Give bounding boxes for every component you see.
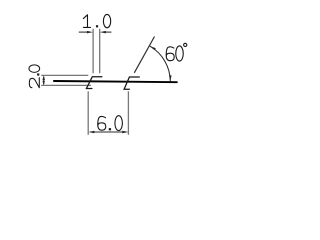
- extension line right of gap: [99, 29, 101, 73]
- label 2.0 (rotated): [29, 65, 40, 88]
- 1.0 dimension lines and arrows: [79, 31, 88, 33]
- break symbol 1: [86, 77, 102, 89]
- left plate bottom edge: [41, 84, 91, 86]
- angular dimension arc: [150, 46, 171, 82]
- break symbol 2: [124, 77, 139, 89]
- label 6.0: [98, 116, 123, 131]
- 6.0 right extension line: [127, 91, 129, 135]
- extension line left of gap: [92, 29, 94, 73]
- arc arrow at line: [169, 75, 172, 81]
- label 60 deg: [166, 43, 187, 61]
- 2.0 dimension line and arrows: [43, 77, 45, 85]
- arc arrow at slant: [150, 46, 156, 50]
- main horizontal line: [53, 81, 177, 82]
- label 1.0: [83, 14, 110, 27]
- 60 degree slant line: [134, 37, 154, 73]
- 6.0 dimension line and arrows: [92, 131, 125, 133]
- left plate top edge: [41, 74, 88, 76]
- 6.0 left extension line: [87, 91, 89, 135]
